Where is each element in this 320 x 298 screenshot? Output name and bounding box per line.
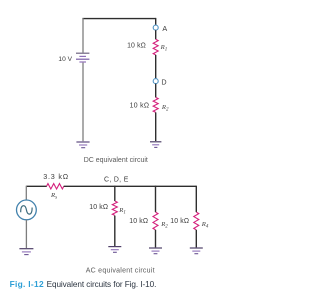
ground (AC branch 1) xyxy=(108,247,121,253)
wire: AC left vertical lower xyxy=(25,220,27,248)
ground (AC branch 2) xyxy=(149,248,162,254)
wire: DC top horizontal xyxy=(82,18,155,20)
wire: AC branch 2 upper xyxy=(155,186,157,212)
wire: AC left vertical upper xyxy=(25,186,27,200)
resistor R1 10 kΩ (DC) xyxy=(153,39,158,55)
resistor R2 10 kΩ (AC) xyxy=(153,212,158,230)
svg-text:3.3 kΩ: 3.3 kΩ xyxy=(43,172,69,181)
ground (AC branch 3) xyxy=(190,248,203,254)
node A xyxy=(153,25,158,30)
wire: DC left vertical upper (to battery) xyxy=(82,18,84,53)
wire: AC top horizontal left xyxy=(26,185,47,187)
battery V1 10 V xyxy=(76,53,89,62)
wire: node A to R1 xyxy=(155,30,157,39)
svg-text:10 kΩ: 10 kΩ xyxy=(130,103,150,110)
svg-text:10 kΩ: 10 kΩ xyxy=(89,204,108,211)
wire: node D to R2 xyxy=(155,84,157,98)
svg-text:Equivalent circuits for Fig. I: Equivalent circuits for Fig. I-10. xyxy=(47,280,157,289)
svg-text:10 kΩ: 10 kΩ xyxy=(170,218,189,225)
wire: AC top horizontal right xyxy=(64,185,197,187)
AC source VS xyxy=(17,200,37,220)
svg-text:DC equivalent circuit: DC equivalent circuit xyxy=(84,157,148,164)
resistor R4 10 kΩ (AC) xyxy=(194,212,199,230)
svg-text:AC equivalent circuit: AC equivalent circuit xyxy=(86,267,155,274)
wire: DC right stub to node A xyxy=(155,18,157,25)
svg-text:10 kΩ: 10 kΩ xyxy=(129,218,148,225)
wire: R1 to node D xyxy=(155,55,157,79)
ground (AC source) xyxy=(19,249,33,255)
ground (left, DC) xyxy=(76,142,89,148)
svg-text:10 V: 10 V xyxy=(58,56,72,63)
node D xyxy=(153,79,158,84)
resistor Rs 3.3 kΩ (horizontal) xyxy=(47,184,64,189)
wire: AC branch 1 lower xyxy=(114,216,116,246)
wire: AC branch 2 lower xyxy=(155,230,157,248)
svg-text:D: D xyxy=(161,78,166,87)
wire: AC branch 3 upper (right corner) xyxy=(195,186,197,212)
resistor R2 10 kΩ (DC) xyxy=(153,97,158,112)
wire: DC left vertical lower (battery to ground) xyxy=(82,63,84,142)
svg-text:A: A xyxy=(162,24,167,33)
svg-text:C, D, E: C, D, E xyxy=(104,176,129,183)
wire: AC branch 1 upper xyxy=(114,186,116,201)
resistor R1 10 kΩ (AC) xyxy=(112,201,117,215)
svg-text:10 kΩ: 10 kΩ xyxy=(127,43,146,50)
ground (right, DC) xyxy=(150,142,161,148)
sine wave xyxy=(21,206,32,214)
wire: AC branch 3 lower xyxy=(195,230,197,248)
svg-text:Fig. I-12: Fig. I-12 xyxy=(10,279,44,289)
wire: R2 to ground xyxy=(155,112,157,141)
